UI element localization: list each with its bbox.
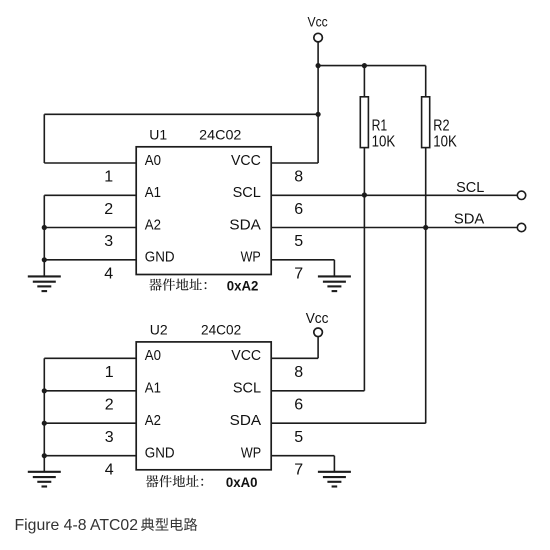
svg-text:SCL: SCL (233, 380, 261, 397)
svg-text:R2: R2 (433, 117, 449, 134)
svg-text:SCL: SCL (233, 184, 261, 201)
svg-text:GND: GND (145, 249, 175, 266)
wire: rail corner down to R2 top lead (425, 66, 427, 98)
svg-text:10K: 10K (433, 133, 457, 150)
svg-text:A0: A0 (145, 347, 161, 364)
svg-text:SCL: SCL (456, 179, 484, 196)
wire: U2 pin 4 GND lead (44, 455, 136, 457)
wire: U2 pin 5 SDA lead (271, 422, 426, 424)
svg-text:1: 1 (104, 169, 113, 186)
svg-text:24C02: 24C02 (199, 127, 241, 143)
svg-text:GND: GND (145, 445, 175, 462)
svg-text:24C02: 24C02 (201, 322, 241, 338)
wire: U2 pin 8 VCC lead (271, 357, 318, 359)
terminal: SCL open circle (517, 191, 525, 199)
wire: SCL bus from U1 pin 6 to terminal (271, 194, 517, 196)
wire: U2 pin 1 A0 lead (44, 357, 136, 359)
wire: U2 pin 3 A2 lead (44, 422, 136, 424)
wire: U1 A0 tie rail (A0 to Vcc line) horizontal (44, 113, 318, 115)
svg-text:Vcc: Vcc (308, 14, 328, 29)
svg-text:8: 8 (294, 364, 303, 381)
wire: U1 pin 2 A1 lead (44, 194, 136, 196)
wire: pull-up top rail from Vcc line to R2 (318, 65, 426, 67)
wire: U1 pin 8 VCC lead to Vcc line (271, 162, 318, 164)
ground symbol (U1 WP) (318, 275, 351, 277)
svg-text:WP: WP (241, 249, 261, 266)
wire: U2 left ground bus vertical (43, 358, 45, 472)
IC U2 24C02 EEPROM chip body (136, 342, 271, 470)
wire: U1 left ground bus vertical (43, 195, 45, 276)
svg-text:0xA0: 0xA0 (226, 474, 258, 490)
wire: R2 bottom lead down to SDA wire and on to U2 SDA pin 5 (425, 148, 427, 424)
svg-text:Vcc: Vcc (306, 310, 329, 327)
wire: U1 pin 3 A2 lead (44, 227, 136, 229)
svg-text:5: 5 (294, 429, 303, 446)
svg-text:A1: A1 (145, 184, 161, 201)
wire: rail down to R1 top lead (363, 66, 365, 98)
IC U1 24C02 EEPROM chip body (136, 147, 271, 275)
wire: U1 pin 7 WP lead (271, 259, 334, 261)
resistor R1 body (360, 97, 368, 148)
svg-text:2: 2 (104, 201, 113, 218)
wire: U2 pin 2 A1 lead (44, 390, 136, 392)
svg-text:A1: A1 (145, 380, 161, 397)
node: junction bus / U1 A2 (42, 225, 47, 230)
svg-text:U2: U2 (150, 322, 168, 338)
wire: U1 pin 4 GND lead (44, 259, 136, 261)
svg-text:4: 4 (104, 265, 113, 282)
svg-text:A2: A2 (145, 216, 161, 233)
ground symbol (U2 WP) (318, 471, 351, 473)
ground symbol (U2 address pins) (28, 471, 61, 473)
wire: U1 WP drop to ground (333, 260, 335, 277)
svg-text:10K: 10K (372, 133, 396, 150)
svg-text:3: 3 (104, 233, 113, 250)
U2 device-address caption 器件地址： (146, 475, 159, 487)
svg-text:1: 1 (105, 364, 114, 381)
svg-text:A0: A0 (145, 152, 161, 169)
svg-text:0xA2: 0xA2 (227, 278, 259, 294)
wire: U2 WP drop to ground (333, 456, 335, 472)
svg-text:6: 6 (294, 201, 303, 218)
svg-text:5: 5 (294, 233, 303, 250)
power symbol Vcc (top) open terminal circle (314, 33, 323, 42)
node: junction Vcc line / U1-A0 tie rail (316, 112, 321, 117)
wire: U1 A0 riser (43, 114, 45, 163)
wire: SDA bus from U1 pin 5 to terminal (271, 227, 517, 229)
svg-text:A2: A2 (145, 412, 161, 429)
node: junction R1 / SCL bus (362, 192, 367, 197)
svg-text:VCC: VCC (231, 347, 261, 364)
svg-text:SDA: SDA (454, 211, 484, 228)
power symbol Vcc (lower) open terminal circle (314, 328, 323, 337)
svg-text:3: 3 (105, 429, 114, 446)
node: junction bus / U1 GND (42, 257, 47, 262)
svg-text:8: 8 (294, 169, 303, 186)
svg-text:6: 6 (294, 396, 303, 413)
svg-text:R1: R1 (372, 117, 388, 134)
svg-text:VCC: VCC (231, 152, 261, 169)
node: junction rail / R1 top (362, 63, 367, 68)
svg-text:WP: WP (241, 445, 261, 462)
node: junction bus / U2 GND (42, 453, 47, 458)
svg-text:SDA: SDA (229, 216, 260, 233)
node: junction R2 / SDA bus (423, 225, 428, 230)
svg-text:4: 4 (105, 461, 114, 478)
node: junction bus / U2 A2 (42, 421, 47, 426)
wire: U2 pin 7 WP lead (271, 455, 334, 457)
wire: R1 bottom lead down to SCL wire and on to U2 SCL pin 6 (363, 148, 365, 391)
svg-text:U1: U1 (149, 127, 167, 143)
terminal: SDA open circle (517, 223, 525, 231)
wire: Vcc terminal down to U1 VCC pin 8 wire (317, 42, 319, 163)
resistor R2 body (422, 97, 430, 148)
wire: U2 pin 6 SCL lead (271, 390, 364, 392)
svg-text:7: 7 (294, 265, 303, 282)
U1 device-address caption 器件地址： (149, 279, 162, 291)
wire: lower Vcc terminal down to U2 VCC pin 8 wire (317, 337, 319, 359)
svg-text:SDA: SDA (230, 412, 261, 429)
svg-text:Figure 4-8 ATC02: Figure 4-8 ATC02 (15, 517, 139, 534)
node: junction Vcc line / pull-up rail (316, 63, 321, 68)
ground symbol (U1 address pins) (28, 275, 61, 277)
wire: U1 pin 1 A0 lead (44, 162, 136, 164)
svg-text:2: 2 (105, 396, 114, 413)
node: junction bus / U2 A1 (42, 388, 47, 393)
svg-text:7: 7 (294, 461, 303, 478)
